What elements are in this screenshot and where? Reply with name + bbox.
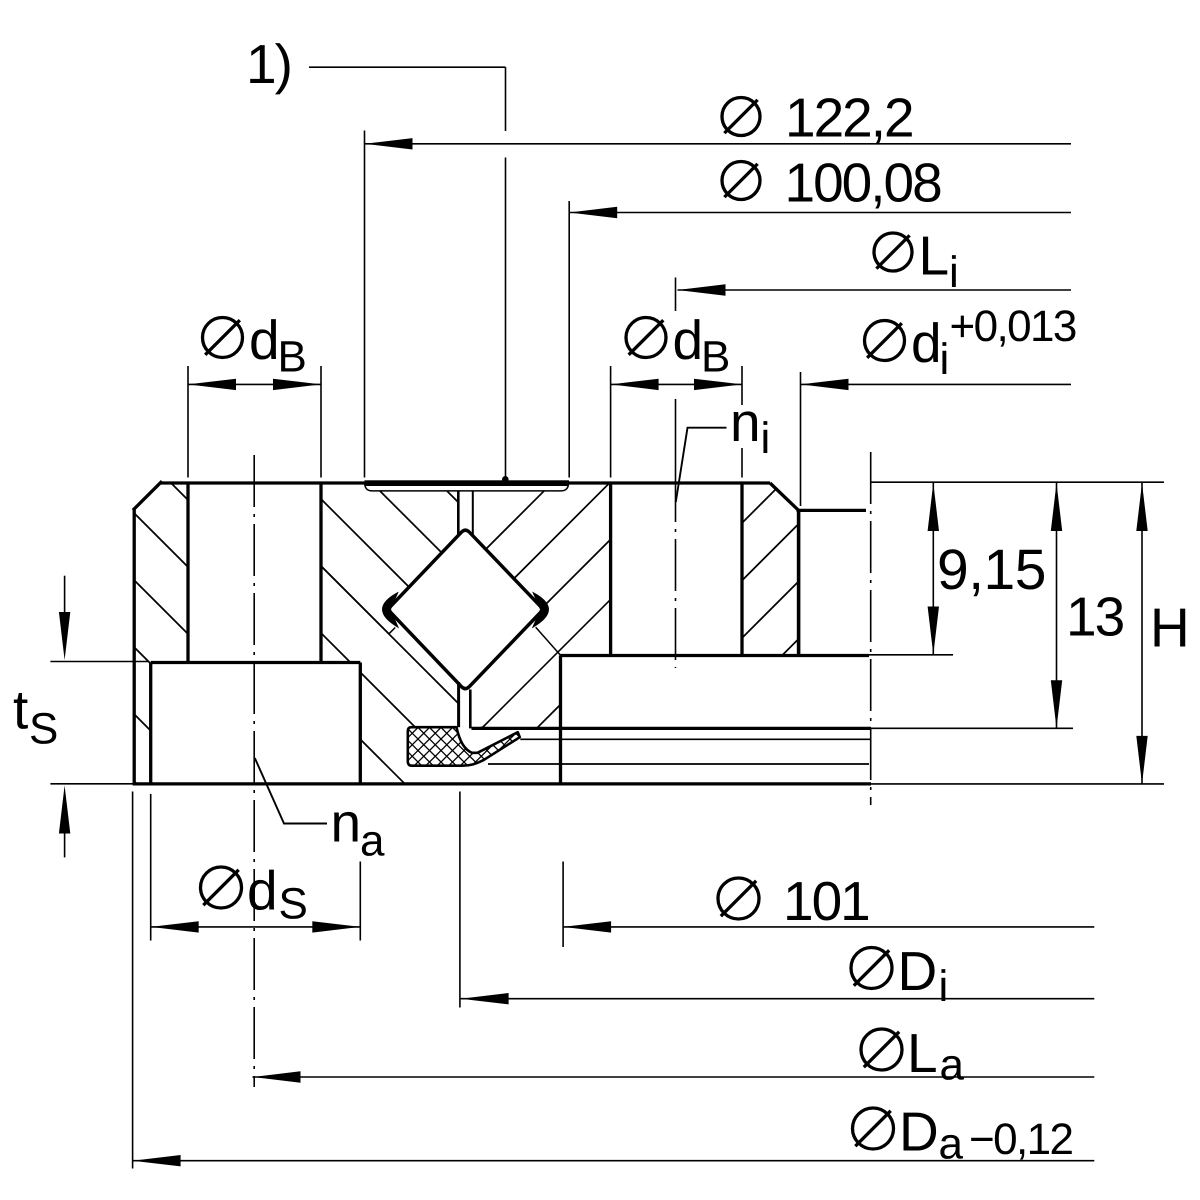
bottom gap left line	[457, 682, 460, 727]
inner ring top-right chamfer	[770, 483, 799, 510]
inner ring bottom surface	[472, 727, 872, 730]
dim 100,08 extension	[568, 201, 570, 478]
svg-text:L: L	[907, 1022, 936, 1084]
dim dB inner line	[611, 383, 742, 385]
outer raceway groove short wall	[389, 628, 396, 635]
counterbore left wall	[149, 663, 152, 785]
inner ring band right edge	[797, 510, 801, 655]
dim dB inner label	[626, 318, 666, 358]
dim Di extension	[459, 792, 461, 1008]
dim tS lower extension	[50, 783, 136, 785]
dim Da line	[133, 1160, 1095, 1162]
dim 100,08 label	[722, 162, 760, 200]
dim La label	[861, 1029, 902, 1070]
dim 9,15 line	[932, 483, 934, 655]
dim 122,2 extension	[364, 131, 366, 478]
svg-text:n: n	[730, 391, 759, 453]
svg-text:S: S	[279, 880, 307, 929]
step surface extension (9,15)	[869, 654, 953, 656]
seal strip left end	[365, 483, 372, 491]
outer bolt hole left edge	[186, 483, 189, 663]
dim 122,2 label	[722, 98, 760, 136]
dim Li line	[678, 289, 1072, 291]
outer ring bottom surface	[133, 782, 871, 785]
dim dS line	[151, 926, 361, 928]
svg-text:122,2: 122,2	[785, 87, 913, 149]
outer bolt hole right edge	[319, 483, 322, 663]
bottom gap right line	[469, 690, 472, 729]
svg-text:−0,12: −0,12	[969, 1115, 1072, 1164]
inner raceway groove short wall	[536, 627, 561, 655]
dim di label	[865, 321, 905, 361]
seal strip bottom line	[372, 490, 562, 492]
na leader	[255, 758, 327, 824]
footnote leader vertical upper	[505, 67, 507, 131]
inner bolt hole left edge	[609, 483, 612, 656]
dim dB outer left extension	[187, 366, 189, 478]
svg-text:t: t	[13, 679, 28, 741]
seal strip right end	[562, 483, 569, 491]
svg-text:d: d	[673, 309, 702, 371]
svg-text:d: d	[249, 309, 278, 371]
bottom extension line (13)	[871, 727, 1073, 729]
labyrinth gap line lower	[488, 763, 869, 765]
dim dB outer right extension	[320, 366, 322, 478]
svg-text:101: 101	[783, 870, 869, 932]
svg-text:+0,013: +0,013	[950, 302, 1076, 351]
outer+inner ring top surface	[161, 481, 770, 484]
counterbore right wall	[359, 663, 362, 785]
dim Li label	[874, 233, 912, 271]
svg-text:a: a	[940, 1041, 965, 1090]
seal strip top bar	[365, 480, 570, 486]
dim Di line	[461, 998, 1095, 1000]
svg-text:i: i	[949, 248, 957, 297]
dim dB inner left extension	[610, 366, 612, 478]
svg-text:D: D	[898, 940, 936, 1002]
dim Da extension	[132, 792, 134, 1169]
dim dB outer line	[188, 383, 321, 385]
svg-text:i: i	[940, 335, 948, 384]
Li extension line	[675, 278, 677, 312]
outer bolt hole centerline / La extension	[253, 455, 255, 1087]
svg-text:D: D	[899, 1101, 937, 1163]
dim 122,2 line	[365, 143, 1072, 145]
svg-text:9,15: 9,15	[937, 538, 1046, 602]
footnote leader horizontal	[309, 66, 506, 68]
svg-text:d: d	[247, 860, 276, 922]
svg-text:a: a	[360, 817, 385, 866]
svg-text:S: S	[29, 705, 57, 754]
dim tS bottom arrow	[64, 828, 66, 858]
svg-text:H: H	[1150, 597, 1188, 659]
svg-text:n: n	[331, 792, 360, 854]
ni leader	[676, 428, 727, 502]
top extension line	[871, 481, 1164, 483]
dim 101 extension	[562, 862, 564, 948]
outer ring top-left chamfer	[133, 481, 162, 510]
lower raceway wall line right	[482, 599, 611, 728]
dim di line	[801, 383, 1072, 385]
dim dB inner right extension	[741, 366, 743, 405]
svg-text:i: i	[939, 962, 947, 1011]
bottom extension line (H)	[871, 783, 1164, 785]
dim 101 label	[718, 878, 759, 919]
dim tS top arrow	[64, 576, 66, 618]
dim dS label	[201, 867, 242, 908]
svg-text:a: a	[939, 1120, 964, 1169]
dim Da label	[853, 1108, 894, 1149]
outer ring left edge	[133, 509, 136, 785]
top gap left line	[457, 491, 460, 535]
dim dS left extension	[150, 794, 152, 941]
dim dB outer label	[203, 318, 243, 358]
svg-text:B: B	[278, 333, 306, 382]
svg-text:1): 1)	[246, 33, 291, 95]
svg-text:13: 13	[1066, 586, 1124, 648]
dim tS upper extension	[50, 661, 148, 663]
dim dS right extension	[359, 862, 361, 941]
right section boundary centerline	[870, 452, 872, 805]
dim 101 line	[563, 926, 1094, 928]
inner ring lower-left edge	[559, 656, 562, 784]
svg-text:100,08: 100,08	[785, 152, 942, 214]
inner bolt hole right edge	[740, 483, 743, 656]
svg-text:d: d	[911, 312, 940, 374]
dim Di label	[851, 948, 892, 989]
svg-text:i: i	[761, 414, 769, 463]
footnote leader end dot	[502, 476, 509, 483]
inner ring step surface	[561, 654, 870, 657]
footnote leader vertical lower	[505, 158, 507, 478]
svg-text:L: L	[919, 225, 948, 287]
dim La line	[253, 1076, 1095, 1078]
dim 100,08 line	[569, 212, 1071, 214]
right corner contact crescent	[533, 593, 549, 628]
inner bolt hole centerline	[675, 470, 677, 668]
left corner contact crescent	[383, 593, 398, 628]
dim di extension	[800, 372, 802, 506]
lower raceway wall line left	[321, 566, 458, 703]
inner ring recess surface	[797, 509, 867, 512]
svg-text:B: B	[701, 333, 729, 382]
crossed roller (square section)	[389, 530, 542, 688]
labyrinth gap line upper	[520, 738, 870, 740]
dim H line	[1141, 483, 1143, 784]
top gap right line	[472, 491, 474, 537]
dim 13 line	[1056, 483, 1058, 728]
counterbore spot face	[151, 661, 361, 664]
seal profile outline	[408, 727, 520, 766]
